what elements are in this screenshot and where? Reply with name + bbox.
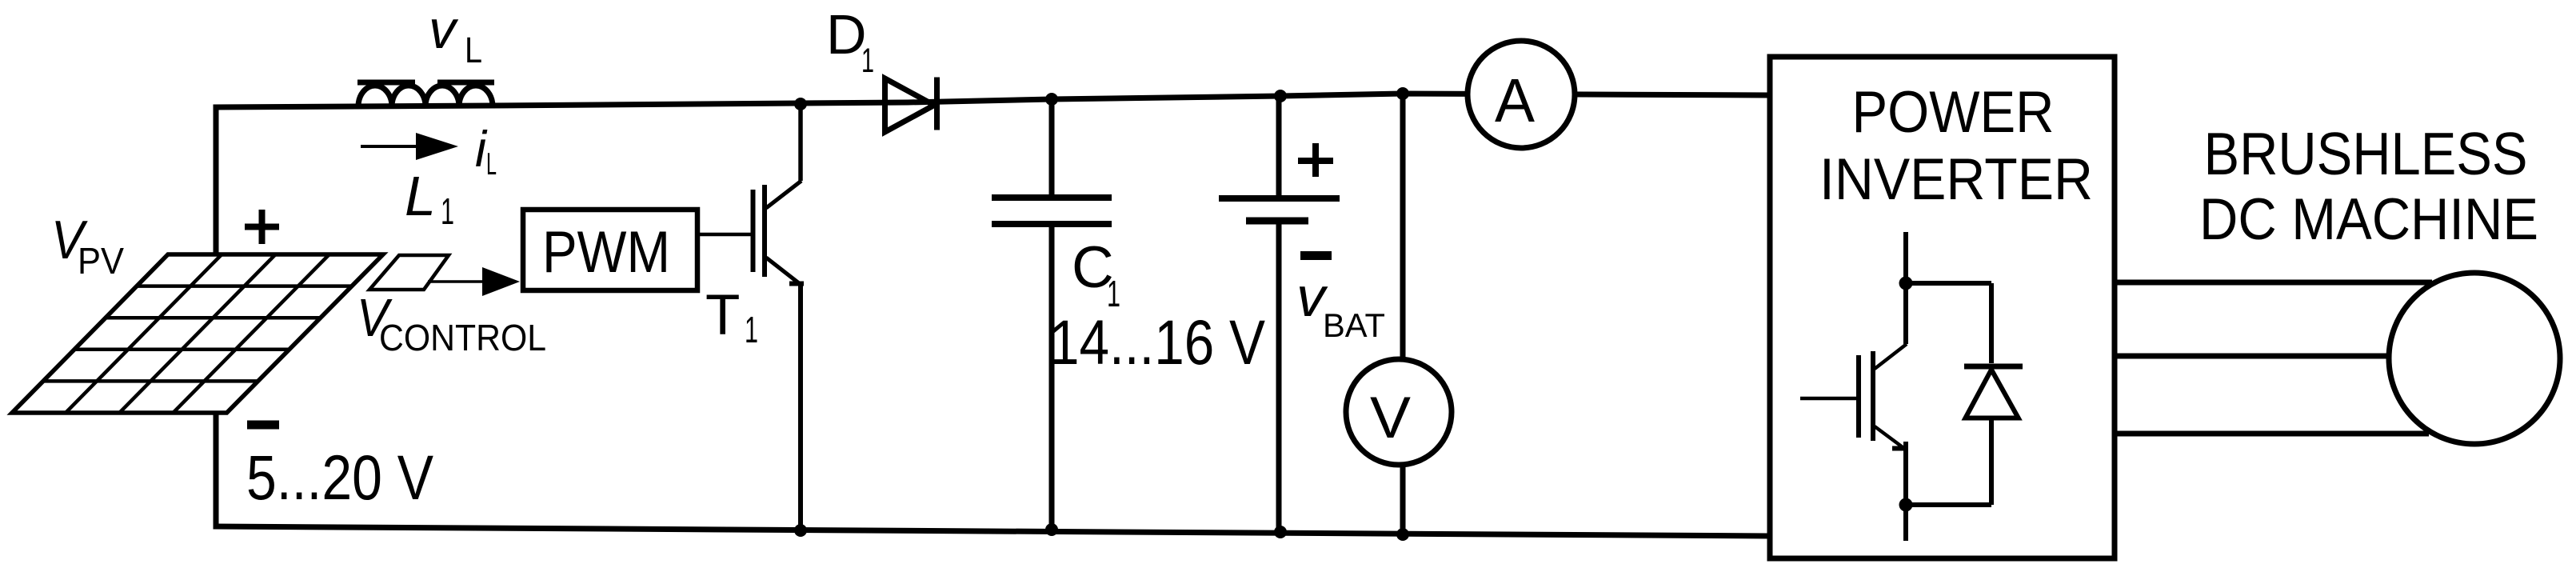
svg-text:1: 1	[745, 309, 758, 350]
svg-text:PV: PV	[78, 240, 124, 282]
svg-text:PWM: PWM	[542, 220, 670, 285]
svg-text:L: L	[465, 30, 482, 70]
svg-text:POWER: POWER	[1852, 80, 2055, 145]
svg-text:14...16 V: 14...16 V	[1049, 306, 1265, 378]
svg-text:DC MACHINE: DC MACHINE	[2199, 187, 2538, 252]
svg-text:1: 1	[861, 42, 874, 80]
svg-text:BAT: BAT	[1323, 306, 1385, 344]
svg-text:BRUSHLESS: BRUSHLESS	[2204, 120, 2528, 187]
svg-text:CONTROL: CONTROL	[379, 317, 546, 358]
svg-text:v: v	[429, 0, 459, 60]
svg-text:L: L	[486, 147, 497, 182]
svg-text:INVERTER: INVERTER	[1819, 147, 2093, 212]
svg-text:1: 1	[441, 190, 454, 232]
svg-text:V: V	[1370, 386, 1411, 450]
svg-text:T: T	[705, 284, 740, 347]
svg-text:A: A	[1495, 66, 1536, 135]
svg-text:D: D	[826, 3, 867, 66]
svg-text:5...20 V: 5...20 V	[246, 442, 433, 513]
svg-text:L: L	[405, 165, 436, 227]
